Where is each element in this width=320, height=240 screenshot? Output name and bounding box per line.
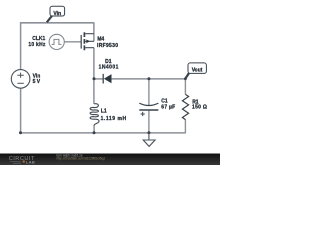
transistor M4 body stub bbox=[85, 40, 94, 42]
transistor M4 source stub bbox=[85, 33, 94, 35]
wire M4 source up to rail bbox=[93, 22, 95, 33]
svg-text:Vout: Vout bbox=[192, 68, 203, 74]
diode D1 triangle bbox=[104, 74, 112, 83]
ground symbol bbox=[143, 133, 155, 147]
transistor M4 channel segments bbox=[83, 32, 85, 50]
node switch junction dot bbox=[93, 77, 96, 80]
svg-text:LAB: LAB bbox=[26, 159, 35, 164]
capacitor C1 straight plate bbox=[139, 109, 158, 111]
wire R1 bottom lead bbox=[184, 120, 186, 134]
wire C1 bottom lead bbox=[148, 110, 150, 132]
node ground junction dot bbox=[147, 131, 150, 134]
diode D1 cathode bar bbox=[102, 74, 104, 84]
wire M4 body tie bbox=[93, 34, 95, 42]
svg-text:L1: L1 bbox=[101, 109, 107, 115]
net flag Vout box bbox=[188, 63, 206, 74]
voltage source plus sign bbox=[17, 73, 23, 78]
node Vout junction dot bbox=[184, 77, 187, 80]
net flag Vin box bbox=[50, 6, 65, 16]
wire top rail bbox=[21, 22, 94, 24]
svg-text:1.119 mH: 1.119 mH bbox=[101, 116, 127, 122]
capacitor C1 plus sign bbox=[141, 112, 145, 116]
node C1 top junction dot bbox=[147, 77, 150, 80]
wire M4 drain down to node bbox=[93, 48, 95, 79]
capacitor C1 curved plate bbox=[139, 103, 158, 105]
voltage source minus sign bbox=[17, 82, 23, 84]
svg-text:M4: M4 bbox=[97, 37, 104, 43]
transistor M4 drain stub bbox=[85, 47, 94, 49]
node source-rail corner dot bbox=[19, 131, 22, 134]
watermark logo square bbox=[23, 160, 25, 162]
transistor M4 gate bar bbox=[80, 35, 82, 49]
svg-text:IRF9530: IRF9530 bbox=[97, 43, 118, 49]
net flag Vout tail bbox=[185, 72, 189, 78]
svg-text:10 kHz: 10 kHz bbox=[28, 42, 46, 48]
wire diode to Vout node bbox=[111, 78, 185, 80]
wire gate from clock to M4 bbox=[64, 41, 81, 43]
svg-text:1N4001: 1N4001 bbox=[99, 65, 119, 71]
clock source CLK1 circle bbox=[49, 34, 64, 49]
clock square wave bbox=[52, 39, 62, 44]
net flag Vin tail bbox=[47, 16, 52, 23]
wire C1 top lead bbox=[148, 79, 150, 106]
svg-text:http://circuitlab.com/c6229tt5: http://circuitlab.com/c6229tt5or5qz bbox=[57, 157, 106, 161]
node L1 bottom junction dot bbox=[93, 131, 96, 134]
wire switch node to diode bbox=[94, 78, 103, 80]
transistor M4 body arrow bbox=[86, 40, 90, 44]
wire left vertical (source top) bbox=[20, 22, 22, 69]
inductor L1 coil bbox=[90, 104, 99, 126]
watermark bar bbox=[0, 154, 220, 166]
wire bottom rail bbox=[21, 132, 186, 134]
voltage source V1 circle bbox=[11, 70, 30, 89]
wire R1 top lead bbox=[184, 79, 186, 95]
svg-text:67 µF: 67 µF bbox=[161, 104, 175, 110]
wire L1 bottom lead bbox=[93, 125, 95, 133]
svg-text:150 Ω: 150 Ω bbox=[192, 105, 207, 111]
resistor R1 zigzag bbox=[182, 94, 188, 119]
svg-text:5 V: 5 V bbox=[33, 79, 41, 85]
svg-text:Vin: Vin bbox=[53, 11, 61, 17]
wire left vertical (source bottom) bbox=[20, 88, 22, 133]
watermark logo dashes bbox=[10, 162, 21, 164]
wire L1 top lead bbox=[93, 79, 95, 104]
